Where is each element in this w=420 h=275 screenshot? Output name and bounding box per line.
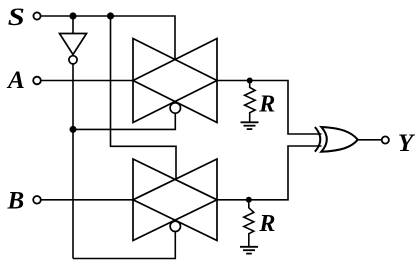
wire S branch to TG2 top control	[111, 16, 177, 179]
input terminal S	[33, 12, 40, 19]
ground R2	[240, 247, 258, 254]
wire inverter input	[72, 16, 74, 34]
svg-text:Y: Y	[398, 130, 416, 157]
svg-text:B: B	[7, 188, 25, 215]
junction S-branch	[107, 12, 114, 19]
junction inverted-S node	[70, 126, 77, 133]
inverter U1	[60, 34, 87, 64]
transmission gate TG1	[133, 39, 217, 123]
ground R1	[241, 122, 259, 129]
input terminal A	[33, 77, 41, 85]
wire TG2 output	[217, 146, 322, 200]
svg-text:S: S	[8, 4, 25, 31]
wire A	[41, 80, 133, 82]
input terminal B	[33, 196, 41, 204]
svg-text:R: R	[258, 211, 275, 237]
transmission gate TG2	[133, 159, 217, 241]
wire TG1 output	[217, 81, 322, 135]
svg-text:R: R	[258, 92, 275, 118]
output terminal Y	[382, 136, 389, 143]
junction TG2 output	[246, 197, 252, 203]
wire inverted-S to TG1 bubble	[73, 113, 175, 129]
wire inverted-S vertical	[72, 64, 74, 259]
junction TG1 output	[247, 78, 253, 84]
wire B	[41, 199, 133, 201]
XOR gate U2	[315, 127, 358, 152]
wire inverted-S to TG2 bubble	[73, 232, 175, 259]
junction S-inverter	[69, 12, 76, 19]
wire XOR output	[358, 139, 382, 141]
wire S horizontal	[41, 16, 175, 60]
svg-text:A: A	[6, 67, 25, 94]
resistor R2	[244, 200, 254, 247]
resistor R1	[245, 81, 256, 123]
